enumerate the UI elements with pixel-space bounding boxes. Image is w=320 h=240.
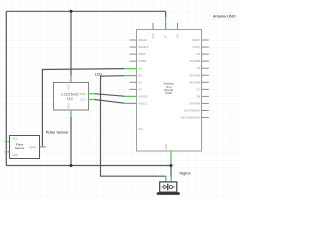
junction ground rail / LCD GND (70, 164, 73, 167)
wire 5V top rail (6, 10, 165, 12)
svg-text:ICSP: ICSP (165, 91, 172, 95)
pulse sensor pin GND leg (connected) (5, 151, 10, 153)
wire 5V left vertical from top rail down to pulse sensor VCC / ground rail (5, 11, 7, 165)
junction ground rail / Arduino GND (170, 164, 173, 167)
junction 5V rail / LCD VCC (70, 10, 73, 13)
pin A5/SCL leg (connected) (124, 102, 137, 104)
value label LCD16x02 I2C (61, 93, 79, 101)
value label Arduino Uno (Rev3) ICSP (164, 82, 175, 96)
pin D6 leg (202, 81, 209, 83)
LCD pin SDA leg (connected) (88, 93, 95, 95)
pin D4 leg (202, 67, 209, 69)
pin IOREF leg (130, 60, 137, 62)
pin RESET leg (130, 39, 137, 41)
laptop base (157, 192, 180, 195)
svg-text:LCD16x02: LCD16x02 (61, 93, 79, 97)
laptop screen icon (161, 185, 175, 189)
pin 3V3 leg (top) (152, 23, 154, 30)
svg-text:Pulse Sensor: Pulse Sensor (46, 131, 69, 135)
wire ground rail (6, 165, 171, 167)
LCD module U2 body (54, 83, 89, 111)
svg-text:Arduino UNO: Arduino UNO (213, 15, 236, 19)
svg-text:I2C: I2C (67, 97, 73, 101)
pin 5V leg (top, connected) (165, 17, 167, 30)
IC U1 Arduino Uno (Rev3) ICSP body (137, 30, 202, 152)
pin D2 leg (202, 53, 209, 55)
pulse sensor body (10, 136, 40, 159)
pin D8 leg (202, 95, 209, 97)
value label Pulse Sensor (15, 142, 25, 150)
laptop screen (160, 182, 177, 192)
pin RESET2 leg (130, 46, 137, 48)
pin A2 leg (130, 81, 137, 83)
pin A1 leg (connected) (124, 75, 137, 77)
wire LCD GND to ground rail (70, 117, 72, 166)
pin D11 leg (202, 117, 209, 119)
wire pulse sensor signal to Arduino A0 (42, 69, 124, 147)
pin D1/TX leg (202, 46, 209, 48)
wire Arduino GND junction down to laptop (170, 166, 172, 178)
pin D7 leg (202, 88, 209, 90)
LCD pin VCC leg (top, connected) (70, 75, 72, 82)
svg-text:Pulse: Pulse (16, 142, 24, 146)
pin GND leg (bottom, connected) (170, 151, 172, 164)
svg-text:Pegtron: Pegtron (180, 171, 191, 175)
pin D5 leg (202, 74, 209, 76)
pin D3 leg (202, 60, 209, 62)
pin A4/SDA leg (connected) (124, 95, 137, 97)
LCD pin GND leg (bottom, connected) (70, 110, 72, 117)
pulse sensor pin VCC leg (connected) (5, 141, 10, 143)
wire 5V rail to LCD VCC (70, 11, 72, 75)
pin VIN leg (top) (177, 23, 179, 30)
svg-text:Sensor: Sensor (15, 146, 25, 150)
svg-text:LCD: LCD (95, 72, 103, 76)
laptop right pin leg (connected) (170, 177, 172, 182)
pin D9 leg (202, 102, 209, 104)
wire 5V drop to Arduino 5V pin (165, 11, 167, 17)
pin D0/RX leg (202, 39, 209, 41)
pulse sensor pin signal leg (connected) (39, 146, 45, 148)
pin AREF leg (130, 53, 137, 55)
wire Arduino A1 to laptop (101, 76, 167, 177)
LCD pin SCL leg (connected) (88, 99, 95, 101)
pin D10 leg (202, 110, 209, 112)
laptop left pin leg (connected) (165, 176, 167, 182)
wire LCD SDA to Arduino A4 (95, 94, 125, 97)
wire LCD SCL to Arduino A5 (95, 100, 125, 104)
pin A0 leg (connected) (124, 68, 137, 70)
pin A3 leg (130, 88, 137, 90)
